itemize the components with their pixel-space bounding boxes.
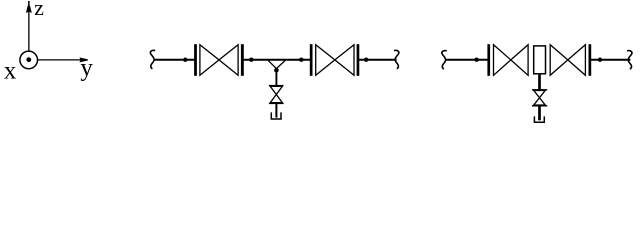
drain symbol	[534, 116, 544, 122]
x-axis dot	[26, 57, 31, 62]
wire: pipe segment	[154, 59, 195, 61]
tee outlet triangle	[268, 60, 285, 68]
junction dot	[598, 58, 602, 62]
junction dot	[364, 58, 368, 62]
wire: bleed pipe	[275, 69, 277, 86]
wire: pipe segment	[244, 59, 311, 61]
svg-text:z: z	[34, 0, 44, 20]
y-axis arrowhead	[79, 57, 88, 62]
z-axis arrowhead	[26, 1, 32, 13]
junction dot	[299, 58, 303, 62]
drain symbol	[271, 112, 281, 119]
junction dot	[474, 58, 478, 62]
flange	[310, 44, 313, 76]
spool body rectangle	[534, 46, 546, 74]
svg-text:y: y	[80, 55, 93, 82]
svg-text:x: x	[4, 58, 17, 85]
pipe break squiggle right, line 1	[394, 50, 399, 68]
wire: drain pipe line 2	[538, 106, 541, 121]
pipe break squiggle left, line 1	[150, 50, 155, 68]
coordinate origin circle (x axis out of page)	[20, 51, 38, 69]
valve V4 body	[550, 45, 585, 76]
junction dot	[249, 58, 253, 62]
flange	[487, 44, 490, 76]
wire: pipe segment	[445, 59, 488, 61]
pipe break squiggle right, line 2	[627, 51, 632, 69]
valve V2 body	[316, 45, 354, 76]
wire: bleed pipe line 2	[538, 75, 541, 90]
bleed valve B2 (hourglass)	[532, 90, 547, 106]
junction dot at tee apex	[274, 68, 279, 73]
pipe break squiggle left, line 2	[442, 51, 447, 69]
bleed valve B1 (hourglass)	[269, 86, 284, 104]
wire: pipe segment	[359, 59, 397, 61]
junction dot	[183, 58, 187, 62]
valve V3 body	[494, 45, 529, 76]
y-axis line	[38, 59, 81, 61]
flange	[241, 44, 244, 76]
wire: drain pipe	[275, 103, 277, 117]
flange	[357, 44, 360, 76]
flange	[589, 44, 592, 76]
wire: pipe segment	[591, 59, 630, 61]
flange	[194, 44, 197, 76]
valve V1 body	[200, 45, 238, 76]
z-axis line	[28, 12, 30, 50]
